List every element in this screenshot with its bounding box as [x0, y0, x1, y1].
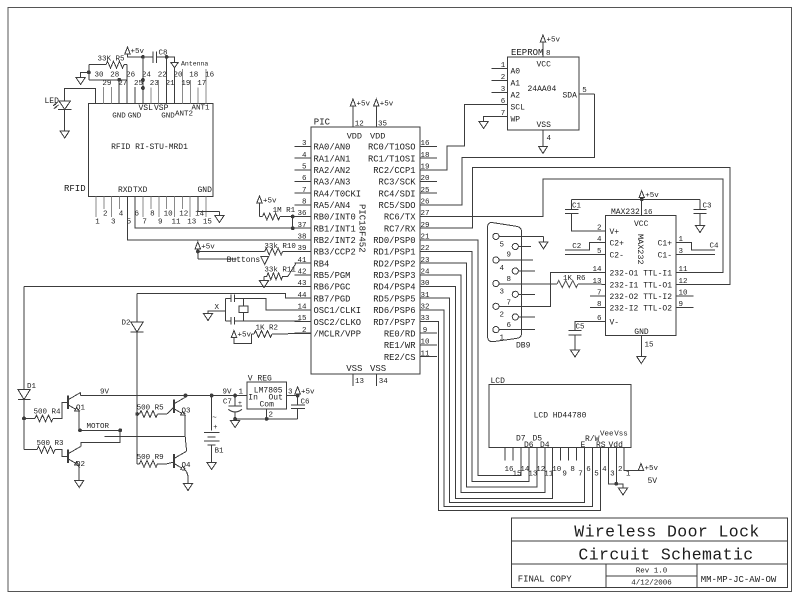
svg-text:11: 11: [420, 350, 430, 358]
ground: [60, 131, 69, 138]
capacitor C7: [223, 396, 242, 419]
svg-text:Q2: Q2: [76, 461, 85, 469]
wire RFID RXD to PIC RB2: [127, 196, 311, 240]
svg-text:RFID: RFID: [64, 184, 86, 194]
transistor Q4: [174, 451, 191, 470]
power +5v: [231, 331, 251, 340]
RFID pin 20: [173, 72, 183, 80]
transistor Q3: [174, 397, 191, 416]
LCD pin 12: [536, 466, 545, 474]
PIC pin 44: [295, 292, 312, 300]
svg-text:9: 9: [562, 470, 567, 478]
RFID pin 7: [142, 196, 147, 226]
PIC pin 11: [420, 350, 437, 358]
svg-text:3: 3: [610, 470, 615, 478]
EEPROM pin 7 WP to ground: [484, 110, 508, 122]
wire PIC to LCD pin 10: [420, 287, 553, 499]
ground: [215, 216, 224, 223]
svg-text:RC0/T1OSO: RC0/T1OSO: [368, 143, 416, 153]
svg-text:9V: 9V: [223, 389, 233, 397]
LCD pin 16: [504, 448, 514, 474]
svg-text:RE0/RD: RE0/RD: [384, 329, 416, 339]
diode D1: [18, 287, 37, 450]
svg-text:D6: D6: [524, 441, 534, 450]
svg-text:RB2/INT2: RB2/INT2: [314, 236, 356, 246]
PIC pin 8: [295, 199, 312, 207]
svg-text:16: 16: [644, 209, 654, 217]
resistor R5b 500: [137, 405, 174, 418]
svg-text:9: 9: [507, 252, 512, 260]
connector arrow Buttons: [261, 256, 269, 264]
wire PIC RB6 long net: [24, 286, 311, 288]
PIC pin 39: [295, 245, 312, 253]
DB9 pin 8 stub: [518, 270, 534, 272]
svg-text:Wireless Door Lock: Wireless Door Lock: [574, 522, 759, 541]
capacitor C6: [291, 396, 310, 419]
svg-text:E: E: [581, 441, 586, 450]
svg-text:232-O2: 232-O2: [610, 293, 639, 302]
RFID pin 18: [189, 72, 198, 104]
wire Buttons +5v node: [195, 242, 265, 265]
wire LCD pin1 to +5v: [624, 448, 641, 471]
svg-text:Antenna: Antenna: [181, 61, 208, 68]
PIC pin 23: [420, 257, 437, 265]
RFID pin 15: [203, 196, 213, 226]
svg-text:1: 1: [500, 335, 505, 343]
svg-text:4/12/2006: 4/12/2006: [631, 580, 672, 588]
ground: [637, 357, 646, 364]
wire pin bus: [89, 65, 127, 104]
PIC pin 29: [420, 222, 437, 230]
svg-text:SDA: SDA: [563, 92, 578, 101]
svg-text:1: 1: [501, 62, 506, 70]
PIC pin 24: [420, 269, 437, 277]
wire crystal to OSC1: [243, 299, 311, 310]
svg-text:RC1/T1OSI: RC1/T1OSI: [368, 154, 416, 164]
LCD pin 7: [577, 448, 583, 479]
antenna connector: [171, 61, 209, 104]
svg-text:OSC1/CLKI: OSC1/CLKI: [314, 306, 362, 316]
PIC pin 31: [420, 292, 437, 300]
svg-text:RD5/PSP5: RD5/PSP5: [373, 294, 415, 304]
svg-text:RD2/PSP2: RD2/PSP2: [373, 259, 415, 269]
svg-text:Vee: Vee: [600, 431, 614, 439]
svg-text:+5v: +5v: [263, 198, 277, 206]
RFID pin 29: [102, 80, 111, 103]
ground: [538, 146, 547, 153]
RFID pin 25: [134, 80, 144, 103]
svg-text:RB0/INT0: RB0/INT0: [314, 213, 356, 223]
svg-text:13: 13: [592, 278, 602, 286]
svg-text:OSC2/CLKO: OSC2/CLKO: [314, 318, 362, 328]
ground: [618, 488, 627, 495]
svg-text:3: 3: [302, 140, 307, 148]
capacitor C1: [565, 199, 606, 231]
svg-text:VDD: VDD: [370, 132, 385, 142]
capacitor C8: [153, 50, 168, 64]
PIC pin 33: [420, 315, 437, 323]
svg-text:VCC: VCC: [537, 61, 552, 70]
svg-text:VSS: VSS: [537, 121, 552, 130]
svg-text:13: 13: [355, 378, 365, 386]
svg-text:RB5/PGM: RB5/PGM: [314, 271, 351, 281]
wire Q3 collector to rail: [186, 396, 187, 397]
ground: [203, 314, 212, 321]
svg-text:Q1: Q1: [76, 405, 86, 413]
EEPROM U? 24AA04: [508, 48, 579, 130]
svg-text:+: +: [213, 424, 217, 432]
LCD pin 6: [586, 466, 591, 474]
svg-text:GND: GND: [634, 328, 649, 337]
svg-text:10: 10: [552, 466, 562, 474]
svg-text:C2+: C2+: [610, 240, 625, 249]
EEPROM pin 1 A0: [491, 62, 507, 70]
svg-text:X: X: [215, 304, 220, 312]
svg-text:+5v: +5v: [547, 37, 561, 45]
svg-text:13: 13: [187, 219, 197, 227]
PIC pin 18: [420, 152, 437, 160]
svg-text:VSS: VSS: [346, 364, 362, 374]
svg-text:ANT2: ANT2: [175, 111, 193, 119]
svg-text:15: 15: [297, 315, 307, 323]
resistor R3 500: [24, 440, 68, 456]
svg-text:5V: 5V: [648, 477, 658, 486]
LCD pin 8: [569, 448, 575, 474]
svg-text:RD0/PSP0: RD0/PSP0: [373, 236, 415, 246]
svg-text:1: 1: [626, 470, 631, 478]
svg-text:8: 8: [150, 211, 155, 219]
capacitor C5: [568, 322, 605, 350]
ground: [479, 122, 488, 129]
svg-text:3: 3: [501, 86, 506, 94]
svg-text:DB9: DB9: [516, 342, 531, 351]
RFID pin 30: [94, 72, 104, 80]
svg-text:TTL-O1: TTL-O1: [643, 281, 672, 290]
resistor R6 1K: [552, 275, 606, 287]
PIC pin 3: [295, 140, 312, 148]
svg-text:GND: GND: [112, 113, 126, 121]
PIC pin 7: [295, 187, 312, 195]
MAX232 pin 15 GND: [641, 336, 654, 357]
svg-text:2: 2: [500, 311, 505, 319]
RFID pin 5: [127, 219, 132, 227]
svg-text:24AA04: 24AA04: [528, 85, 557, 94]
svg-text:RB7/PGD: RB7/PGD: [314, 294, 351, 304]
DB9 pin 1 stub: [499, 329, 535, 331]
svg-text:RB3/CCP2: RB3/CCP2: [314, 248, 356, 258]
svg-text:4: 4: [500, 265, 505, 273]
RFID pin 17: [197, 80, 206, 103]
wire Q2 emitter to ground: [78, 465, 80, 480]
resistor R9 500: [137, 454, 174, 467]
ground: [539, 242, 548, 249]
capacitor C? crystal load bottom: [226, 317, 244, 325]
svg-text:SCL: SCL: [511, 104, 526, 113]
wire RFID pin14 to ground: [198, 212, 219, 216]
RFID pin 2: [103, 196, 108, 218]
wire PIC to LCD pin 13: [420, 252, 529, 482]
svg-text:7: 7: [302, 187, 307, 195]
wire Q4 emitter to ground: [185, 470, 188, 484]
svg-text:RC7/RX: RC7/RX: [384, 224, 416, 234]
svg-text:PIC: PIC: [314, 118, 331, 128]
svg-text:V-: V-: [610, 319, 620, 328]
svg-text:GND: GND: [128, 113, 142, 121]
svg-text:TXD: TXD: [133, 186, 148, 195]
svg-text:16: 16: [420, 140, 430, 148]
diode D2: [122, 293, 144, 463]
RFID pin 16: [205, 69, 215, 104]
svg-text:C1+: C1+: [658, 240, 673, 249]
svg-text:18: 18: [189, 72, 198, 80]
svg-text:7: 7: [142, 219, 147, 227]
DB9 pin 4 stub: [499, 259, 533, 261]
PIC pin 41: [295, 257, 312, 265]
power +5v: [540, 35, 560, 57]
svg-text:EEPROM: EEPROM: [511, 48, 543, 58]
power +5v: [638, 464, 658, 487]
PIC pin 37: [295, 222, 312, 230]
power +5v: [295, 387, 315, 397]
PIC pin 4: [295, 152, 312, 160]
svg-text:10: 10: [164, 211, 174, 219]
voltage regulator U? LM7805: [238, 375, 293, 410]
LCD pin 2: [618, 466, 623, 474]
connector J? DB9: [488, 223, 531, 351]
svg-text:VDD: VDD: [347, 132, 362, 142]
RFID pin 24: [142, 72, 152, 80]
PIC pin 15: [295, 315, 312, 323]
svg-text:10: 10: [420, 339, 430, 347]
RFID pin 4: [119, 196, 124, 218]
svg-text:RA1/AN1: RA1/AN1: [314, 154, 351, 164]
svg-text:TTL-O2: TTL-O2: [643, 305, 672, 314]
svg-text:6: 6: [507, 322, 512, 330]
svg-text:+5v: +5v: [357, 101, 371, 109]
RFID pin 23: [150, 80, 160, 103]
svg-text:8: 8: [507, 276, 512, 284]
PIC pin 43: [295, 280, 312, 288]
PIC pin 20: [420, 175, 437, 183]
svg-text:+5v: +5v: [201, 243, 215, 251]
RFID pin 10: [164, 196, 174, 218]
svg-text:12: 12: [679, 278, 688, 286]
resistor R4 500: [24, 402, 68, 422]
svg-text:7: 7: [501, 110, 506, 118]
svg-text:ANT1: ANT1: [192, 105, 211, 113]
svg-text:C1-: C1-: [658, 251, 672, 260]
wire node A to Q2 collector: [81, 430, 120, 446]
svg-text:9V: 9V: [100, 389, 110, 397]
svg-text:15: 15: [645, 342, 655, 350]
svg-text:RFID RI-STU-MRD1: RFID RI-STU-MRD1: [111, 143, 188, 152]
svg-text:RA5/AN4: RA5/AN4: [314, 201, 351, 211]
capacitor C4: [676, 243, 719, 255]
PIC pin 2: [295, 327, 312, 335]
svg-text:3: 3: [111, 219, 116, 227]
svg-text:6: 6: [501, 98, 506, 106]
RFID pin 28: [110, 72, 119, 104]
svg-text:LCD: LCD: [491, 377, 506, 386]
PIC pin 9: [420, 327, 437, 335]
svg-text:RA2/AN2: RA2/AN2: [314, 166, 351, 176]
svg-text:~: ~: [212, 415, 217, 423]
LCD pin 15: [512, 448, 522, 479]
svg-text:21: 21: [420, 234, 430, 242]
svg-text:+5v: +5v: [380, 101, 394, 109]
PIC pin 5: [295, 164, 312, 172]
svg-text:Buttons: Buttons: [227, 256, 261, 265]
wire Q4 collector to motor node B: [185, 436, 186, 451]
svg-text:MOTOR: MOTOR: [87, 423, 110, 431]
svg-text:8: 8: [302, 199, 307, 207]
svg-text:8: 8: [570, 466, 575, 474]
svg-text:33K R5: 33K R5: [98, 56, 126, 64]
svg-text:4: 4: [302, 152, 307, 160]
svg-text:Com: Com: [260, 401, 275, 410]
RFID pin 1: [95, 196, 100, 226]
svg-text:RE2/CS: RE2/CS: [384, 353, 416, 363]
svg-text:TTL-I2: TTL-I2: [643, 293, 672, 302]
wire PIC RX to MAX232 TTL-O1: [420, 167, 730, 284]
ground: [183, 484, 192, 491]
svg-text:C7: C7: [223, 399, 232, 407]
PIC pin 30: [420, 280, 437, 288]
RFID pin 11: [171, 196, 181, 226]
svg-text:42: 42: [297, 269, 306, 277]
LCD pin 3: [610, 470, 615, 478]
wire +5v to pin24 and C8: [128, 54, 153, 103]
MAX232 unconnected stubs: [590, 296, 693, 308]
svg-text:11: 11: [679, 266, 689, 274]
LCD pin 11: [544, 470, 554, 478]
svg-text:+5v: +5v: [645, 465, 659, 473]
svg-text:RXD: RXD: [118, 186, 133, 195]
svg-text:RA4/T0CKI: RA4/T0CKI: [314, 189, 362, 199]
EEPROM pin 6 SCL wire to PIC RC2: [420, 98, 508, 170]
svg-text:500 R4: 500 R4: [34, 409, 62, 417]
svg-text:MAX232: MAX232: [611, 208, 640, 217]
EEPROM pin 3 A2: [491, 86, 507, 94]
svg-text:7: 7: [578, 470, 583, 478]
wire regulator output +5v node: [286, 394, 299, 398]
svg-text:4: 4: [547, 135, 552, 143]
svg-text:GND: GND: [198, 186, 213, 195]
capacitor C? crystal load top: [226, 295, 244, 303]
wire LCD pins 2,3 to ground: [608, 448, 623, 488]
ground: [695, 226, 704, 233]
wire Q1 emitter to motor node A: [78, 411, 80, 430]
crystal X1: [239, 299, 248, 322]
svg-text:34: 34: [379, 378, 389, 386]
svg-text:In: In: [248, 394, 258, 403]
svg-text:4: 4: [119, 211, 124, 219]
svg-text:Q3: Q3: [182, 408, 192, 416]
svg-text:4: 4: [602, 466, 607, 474]
svg-text:9: 9: [423, 327, 428, 335]
PIC pin 26: [420, 199, 437, 207]
svg-text:232-I1: 232-I1: [610, 281, 639, 290]
svg-text:V+: V+: [610, 228, 620, 237]
PIC pin 22: [420, 245, 437, 253]
capacitor C3: [693, 199, 712, 225]
DB9 pin 7 stub: [518, 293, 534, 295]
PIC pin 38: [295, 234, 312, 242]
svg-text:A0: A0: [511, 68, 521, 77]
RFID pin 9: [158, 196, 163, 226]
svg-text:RA3/AN3: RA3/AN3: [314, 178, 351, 188]
wire PIC to LCD pin 5: [420, 310, 593, 507]
wire PIC to LCD pin 12: [420, 263, 537, 487]
svg-text:2: 2: [501, 74, 506, 82]
ground: [259, 281, 268, 288]
RFID pin 13: [187, 196, 197, 226]
PIC pin 10: [420, 339, 437, 347]
svg-text:GND: GND: [161, 113, 175, 121]
svg-text:RD6/PSP6: RD6/PSP6: [373, 306, 415, 316]
svg-text:FINAL COPY: FINAL COPY: [518, 575, 573, 585]
PIC pin 32: [420, 304, 437, 312]
svg-text:Q4: Q4: [182, 462, 192, 470]
PIC pin 27: [420, 210, 437, 218]
svg-text:RB4: RB4: [314, 259, 330, 269]
svg-text:Vss: Vss: [614, 431, 628, 439]
RFID pin 3: [111, 196, 116, 226]
RFID pin 6: [135, 211, 140, 219]
DB9 pin 9 stub: [518, 246, 531, 248]
svg-text:RE1/WR: RE1/WR: [384, 341, 416, 351]
svg-text:MAX232: MAX232: [635, 234, 645, 265]
capacitor C2: [565, 243, 606, 255]
svg-text:+5v: +5v: [301, 388, 315, 396]
svg-text:2: 2: [103, 211, 108, 219]
svg-text:RD7/PSP7: RD7/PSP7: [373, 318, 415, 328]
svg-text:PIC18F452: PIC18F452: [357, 204, 367, 253]
svg-text:D4: D4: [540, 441, 550, 450]
svg-text:2: 2: [269, 412, 274, 420]
svg-text:RC4/SDI: RC4/SDI: [379, 189, 416, 199]
wire PIC to LCD pin 14: [420, 240, 521, 475]
wire C8 to antenna: [156, 55, 174, 103]
LCD pin 5: [594, 470, 599, 478]
resistor R2 1K: [234, 324, 311, 343]
svg-text:23: 23: [150, 80, 160, 88]
svg-text:RC6/TX: RC6/TX: [384, 213, 416, 223]
battery B1: [204, 396, 224, 463]
svg-text:25: 25: [420, 187, 430, 195]
svg-text:RB6/PGC: RB6/PGC: [314, 283, 351, 293]
svg-text:16: 16: [205, 72, 215, 80]
svg-text:1: 1: [238, 389, 243, 397]
PIC pin 35: [376, 106, 387, 129]
wire PIC TX to MAX232 TTL-I1: [420, 179, 723, 273]
svg-text:33k R10: 33k R10: [264, 243, 296, 251]
svg-text:LED: LED: [45, 97, 60, 106]
LCD pin 13: [528, 470, 538, 478]
transistor Q1: [68, 393, 86, 413]
svg-text:29: 29: [102, 80, 111, 88]
svg-text:B1: B1: [215, 448, 225, 456]
wire PIC to LCD pin 11: [420, 275, 545, 493]
ground: [75, 481, 84, 488]
svg-text:A2: A2: [511, 92, 521, 101]
svg-text:20: 20: [420, 175, 430, 183]
svg-text:38: 38: [297, 234, 306, 242]
svg-text:RC2/CCP1: RC2/CCP1: [373, 166, 415, 176]
LCD pin 14: [520, 466, 530, 474]
PIC pin 42: [295, 269, 312, 277]
microcontroller U? PIC18F452: [311, 118, 420, 375]
